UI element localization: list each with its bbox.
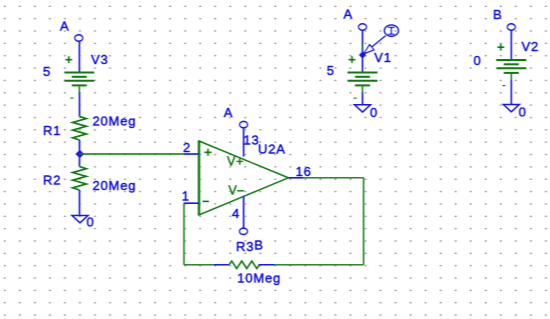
- op-amp pin 2 stub: [184, 153, 199, 155]
- wire junction to op-amp pin 2: [80, 153, 185, 155]
- wire V1 node A to battery: [362, 30, 364, 72]
- wire R2 to ground: [79, 190, 81, 216]
- green wire overlap segment (V1): [362, 44, 364, 50]
- voltage source V2 battery symbol: [496, 44, 526, 86]
- svg-text:B: B: [493, 7, 502, 22]
- svg-text:1: 1: [182, 188, 190, 203]
- svg-text:V3: V3: [91, 52, 109, 67]
- R3B left pin stub: [214, 264, 230, 266]
- node terminal circle (op-amp pin 4): [240, 228, 248, 234]
- voltage source V3 battery symbol: [64, 56, 94, 98]
- current probe arrow: [364, 36, 386, 54]
- ground 0 (under V2): [503, 105, 519, 112]
- op-amp U2A triangle: [199, 140, 288, 215]
- wire bottom left from R3B: [184, 264, 214, 266]
- svg-text:20Meg: 20Meg: [93, 178, 137, 193]
- node B terminal circle (V2): [507, 24, 515, 30]
- svg-text:0: 0: [87, 215, 95, 230]
- svg-text:10Meg: 10Meg: [237, 270, 281, 285]
- wire op-amp output to right corner: [304, 177, 364, 179]
- svg-text:A: A: [60, 19, 69, 34]
- svg-text:0: 0: [519, 105, 527, 120]
- ground 0 (under R2): [72, 216, 88, 223]
- wire V1 to ground: [362, 93, 364, 105]
- op-amp pin 4 wire: [243, 196, 245, 227]
- svg-text:2: 2: [183, 140, 191, 155]
- wire left vertical up to pin 1: [183, 203, 185, 265]
- op-amp pin 1 stub: [184, 202, 199, 204]
- svg-text:5: 5: [43, 64, 51, 79]
- current probe circle with I: [384, 25, 398, 36]
- wire V3 to R1: [79, 93, 81, 117]
- svg-text:V+: V+: [227, 154, 244, 168]
- svg-text:20Meg: 20Meg: [93, 113, 137, 128]
- node A terminal circle (op-amp pin 13): [240, 121, 248, 127]
- svg-text:V1: V1: [374, 50, 392, 65]
- svg-text:5: 5: [327, 63, 335, 78]
- node A terminal circle (V1): [359, 24, 367, 30]
- svg-text:U2A: U2A: [258, 141, 286, 156]
- svg-text:R2: R2: [43, 173, 61, 188]
- ground 0 (under V1): [355, 105, 371, 112]
- svg-text:A: A: [224, 105, 233, 120]
- op-amp output pin 16 stub: [288, 177, 303, 179]
- node A terminal circle (V3): [75, 35, 83, 41]
- svg-text:R1: R1: [43, 123, 61, 138]
- op-amp inverting - mark: [202, 200, 209, 202]
- svg-text:R3B: R3B: [236, 238, 264, 255]
- svg-text:A: A: [344, 6, 353, 21]
- op-amp non-inverting + mark: [204, 149, 211, 156]
- wire right vertical (output down): [363, 178, 365, 265]
- svg-text:V2: V2: [522, 39, 540, 54]
- voltage source V1 battery symbol: [348, 56, 378, 98]
- resistor R1: [73, 116, 87, 140]
- svg-text:0: 0: [474, 53, 482, 68]
- svg-text:4: 4: [232, 206, 240, 221]
- resistor R3B: [229, 261, 259, 269]
- junction on V1 wire (probe point): [359, 51, 366, 58]
- wire V2 node B to battery: [510, 30, 512, 60]
- svg-text:16: 16: [296, 164, 312, 179]
- svg-text:V: V: [228, 184, 237, 198]
- R3B right pin stub: [258, 264, 274, 266]
- junction node R1/R2/op-amp input: [76, 150, 85, 159]
- resistor R2: [73, 167, 87, 191]
- wire V3 node A to battery: [78, 41, 80, 72]
- op-amp pin 13 wire: [243, 128, 245, 157]
- wire bottom right to R3B: [275, 264, 364, 266]
- svg-text:0: 0: [370, 105, 378, 120]
- wire V2 to ground: [510, 80, 512, 105]
- wire R1 to R2: [79, 140, 81, 167]
